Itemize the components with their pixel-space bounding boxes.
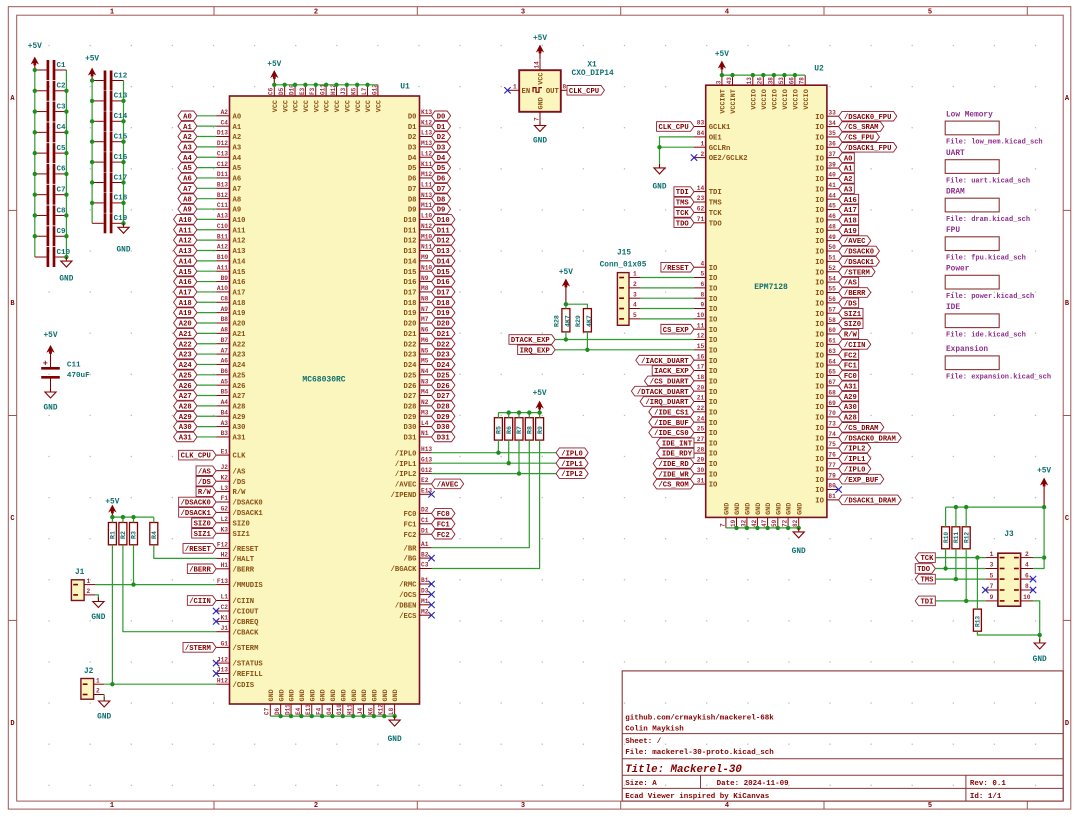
- global label TCK (J3): [915, 553, 935, 563]
- wire A2: [197, 136, 216, 138]
- svg-text:A20: A20: [233, 321, 246, 329]
- svg-text:3: 3: [633, 291, 637, 298]
- svg-text:B11: B11: [217, 233, 228, 240]
- svg-text:J15: J15: [617, 250, 631, 258]
- global label TDO (J3): [915, 564, 935, 574]
- global label A28: [174, 401, 197, 411]
- U2 pin 63 (IO): [815, 348, 838, 360]
- svg-text:GND: GND: [382, 689, 390, 701]
- global label /RESET (U2): [661, 262, 694, 272]
- svg-text:A16: A16: [233, 279, 246, 287]
- svg-text:/REFILL: /REFILL: [233, 671, 263, 679]
- svg-text:A17: A17: [179, 290, 192, 298]
- global label D25: [432, 370, 455, 380]
- U1 pin K12 (D1): [408, 119, 433, 131]
- U2 pin 43 (VCCINT): [726, 75, 738, 114]
- svg-text:K6: K6: [367, 707, 374, 715]
- svg-text:2: 2: [96, 688, 100, 695]
- title block text: file: [625, 749, 774, 757]
- svg-text:A15: A15: [233, 269, 246, 277]
- capacitor C11 470uF: [41, 356, 90, 391]
- svg-text:/DS: /DS: [844, 300, 858, 308]
- global label A20: [174, 318, 197, 328]
- svg-text:D9: D9: [437, 207, 446, 215]
- svg-text:IO: IO: [815, 352, 824, 360]
- svg-text:L7: L7: [361, 87, 368, 95]
- svg-text:C13: C13: [114, 93, 128, 101]
- svg-text:A29: A29: [844, 394, 857, 402]
- U2 pin 10 (IO): [694, 312, 718, 324]
- wire A31: [197, 436, 216, 438]
- svg-text:VCC: VCC: [324, 100, 332, 112]
- junction GND/R13: [1038, 633, 1042, 637]
- wire A27: [197, 395, 216, 397]
- svg-text:40: 40: [828, 172, 836, 179]
- svg-text:66: 66: [788, 77, 795, 85]
- svg-text:84: 84: [697, 130, 705, 137]
- svg-text:C5: C5: [57, 145, 67, 153]
- global label /CS_FPU (U2 right): [839, 132, 880, 142]
- U1 pin B13 (A7): [216, 182, 241, 194]
- global label D4: [432, 152, 451, 162]
- svg-text:N12: N12: [421, 223, 432, 230]
- svg-text:A15: A15: [179, 269, 192, 277]
- global label /CS_DRAM (U2 right): [839, 423, 884, 433]
- U2 pin 71 (TDO): [694, 216, 722, 228]
- svg-text:A14: A14: [179, 258, 193, 266]
- svg-text:File: dram.kicad_sch: File: dram.kicad_sch: [946, 216, 1030, 224]
- svg-text:M11: M11: [421, 202, 432, 209]
- svg-text:R/W: R/W: [844, 332, 858, 340]
- svg-text:L10: L10: [421, 213, 432, 220]
- svg-text:IO: IO: [815, 342, 824, 350]
- global label /EXP_BUF (U2 right): [839, 474, 884, 484]
- svg-text:M13: M13: [421, 140, 432, 147]
- U2 pin 58 (IO): [815, 317, 838, 329]
- connector J1: [71, 569, 95, 601]
- svg-text:/CS_ROM: /CS_ROM: [658, 482, 688, 490]
- svg-text:L8: L8: [388, 707, 395, 715]
- svg-text:CLK_CPU: CLK_CPU: [658, 124, 688, 132]
- U2 pin 57 (IO): [815, 306, 838, 318]
- U1 pin B6 (A25): [216, 368, 245, 380]
- ground GND (X1): [533, 122, 547, 146]
- U2 pin 72 (GND): [782, 503, 794, 528]
- svg-text:E3: E3: [299, 87, 306, 95]
- svg-text:7: 7: [990, 583, 994, 590]
- U1 pin N11 (D13): [404, 244, 433, 256]
- svg-text:C11: C11: [67, 361, 81, 369]
- U2 pin 46 (IO): [815, 213, 838, 225]
- U2 pin 69 (IO): [815, 400, 838, 412]
- U2 pin 64 (IO): [815, 358, 838, 370]
- svg-text:A28: A28: [179, 403, 192, 411]
- wire A10: [197, 218, 216, 220]
- wire A28: [197, 405, 216, 407]
- U2 value EPM7128: [754, 283, 788, 292]
- svg-text:R/W: R/W: [233, 489, 247, 497]
- svg-text:/STERM: /STERM: [185, 645, 211, 653]
- power +5V (R1-R4): [105, 499, 119, 518]
- svg-text:/EXP_BUF: /EXP_BUF: [844, 477, 879, 485]
- svg-text:K5: K5: [351, 87, 358, 95]
- U1 pin G12 (/IPL2): [395, 467, 433, 479]
- U2 pin 53 (VCCIO): [778, 75, 790, 110]
- U2 pin 77 (IO): [815, 462, 838, 474]
- svg-text:1: 1: [110, 802, 114, 810]
- U1 pin G11 (VCC): [320, 84, 332, 112]
- svg-text:/DSACK1_FPU: /DSACK1_FPU: [844, 145, 891, 153]
- svg-text:Title: Mackerel-30: Title: Mackerel-30: [625, 764, 742, 776]
- global label /IDE_WR: [653, 469, 694, 479]
- U1 pin G13 (/IPL1): [395, 456, 433, 468]
- X1 value CXO_DIP14: [572, 70, 614, 78]
- svg-text:K13: K13: [421, 109, 432, 116]
- junction R6//IPL1: [507, 461, 511, 465]
- U1 pin M6 (D22): [404, 337, 432, 349]
- global label /DSACK0_DRAM (U2 right): [839, 433, 902, 443]
- U1 pin M13 (D3): [408, 140, 433, 152]
- sheet Power: [945, 266, 1034, 301]
- U1 pin L4 (D30): [404, 420, 432, 432]
- svg-text:VCCIO: VCCIO: [793, 89, 801, 109]
- svg-text:D19: D19: [404, 310, 417, 318]
- svg-text:A30: A30: [844, 404, 857, 412]
- svg-text:A23: A23: [179, 352, 192, 360]
- U1 pin M3 (D29): [404, 409, 432, 421]
- global label /DSACK1: [179, 508, 216, 518]
- global label DTACK_EXP: [509, 335, 555, 345]
- U2 pin 54 (IO): [815, 275, 838, 287]
- svg-text:N11: N11: [421, 244, 432, 251]
- svg-text:GND: GND: [392, 689, 400, 701]
- svg-text:/RMC: /RMC: [399, 582, 417, 590]
- svg-text:IO: IO: [815, 166, 824, 174]
- svg-text:/IDE_CS1: /IDE_CS1: [654, 409, 689, 417]
- svg-text:N6: N6: [421, 327, 429, 334]
- U1 pin N12 (D11): [404, 223, 433, 235]
- svg-text:A6: A6: [183, 176, 192, 184]
- svg-text:/DS: /DS: [233, 479, 247, 487]
- svg-text:A9: A9: [183, 207, 192, 215]
- wire J3.10 to GND: [1033, 601, 1040, 641]
- power +5V (cap bank C1-C10): [28, 43, 42, 70]
- U1 pin E3 (VCC): [299, 85, 311, 112]
- svg-text:J12: J12: [217, 656, 228, 663]
- svg-text:VCC: VCC: [272, 100, 280, 112]
- wire R12 leg: [965, 549, 967, 601]
- svg-text:DRAM: DRAM: [946, 189, 965, 197]
- svg-text:A19: A19: [179, 310, 192, 318]
- U2 pin 50 (IO): [815, 244, 838, 256]
- svg-text:/IPL0: /IPL0: [395, 450, 417, 458]
- global label A18: [174, 297, 197, 307]
- U1 pin H13 (/IPL0): [395, 446, 433, 458]
- junction TDI/R12: [964, 599, 968, 603]
- U2 pin 56 (IO): [815, 296, 838, 308]
- svg-text:A4: A4: [233, 155, 242, 163]
- wire TCK: [935, 557, 985, 559]
- svg-text:N13: N13: [421, 192, 432, 199]
- no-connect /RMC: [428, 581, 434, 587]
- global label A23: [174, 349, 197, 359]
- wire /IPL1: [432, 462, 557, 464]
- svg-text:IO: IO: [815, 487, 824, 495]
- svg-text:VCC: VCC: [293, 100, 301, 112]
- wire OE1/GCLRn to GND: [660, 137, 695, 164]
- svg-text:A31: A31: [233, 435, 247, 443]
- svg-text:E2: E2: [421, 477, 429, 484]
- svg-text:/IPL2: /IPL2: [561, 471, 583, 479]
- svg-text:K3: K3: [221, 527, 229, 534]
- wire J2.1 to /CDIS: [104, 683, 216, 685]
- svg-text:Conn_01x05: Conn_01x05: [600, 262, 647, 270]
- svg-text:GND: GND: [59, 276, 73, 284]
- svg-text:A26: A26: [233, 383, 246, 391]
- svg-text:/CBACK: /CBACK: [233, 629, 260, 637]
- wire J1.2 to GND: [95, 595, 98, 599]
- svg-text:M2: M2: [421, 608, 429, 615]
- svg-text:R13: R13: [975, 616, 982, 627]
- global label /CIIN (U2 right): [839, 340, 871, 350]
- svg-text:61: 61: [828, 338, 836, 345]
- sheet FPU: [945, 227, 1026, 262]
- global label A17 (U2 right): [839, 205, 859, 215]
- global label /CS_ROM: [653, 479, 694, 489]
- svg-text:J4: J4: [357, 707, 364, 715]
- svg-text:GND: GND: [97, 714, 111, 722]
- wire VCC bus (U1): [274, 84, 378, 86]
- title block text: project url: [625, 715, 774, 723]
- global label /AVEC: [432, 479, 464, 489]
- svg-text:21: 21: [697, 395, 705, 402]
- svg-text:1: 1: [513, 83, 517, 90]
- svg-text:M4: M4: [421, 389, 429, 396]
- U2 pin 81 (IO): [815, 493, 838, 505]
- U1 pin C3 (/BGACK): [391, 562, 432, 574]
- svg-text:G2: G2: [221, 506, 229, 513]
- wire A0: [197, 115, 216, 117]
- svg-text:2: 2: [633, 281, 637, 288]
- global label A16 (U2 right): [839, 194, 859, 204]
- U1 pin A2 (A0): [216, 109, 241, 121]
- svg-text:FC1: FC1: [404, 521, 418, 529]
- svg-text:M7: M7: [421, 316, 429, 323]
- svg-text:IO: IO: [815, 373, 824, 381]
- svg-text:33: 33: [828, 109, 836, 116]
- svg-text:GND: GND: [309, 689, 317, 701]
- svg-text:K2: K2: [221, 474, 229, 481]
- svg-text:OE1: OE1: [709, 135, 723, 143]
- capacitor C3: [35, 102, 67, 122]
- svg-text:/CIOUT: /CIOUT: [233, 609, 260, 617]
- svg-text:R3: R3: [131, 531, 138, 539]
- wire A11: [197, 229, 216, 231]
- svg-text:B10: B10: [217, 254, 228, 261]
- svg-text:D1: D1: [437, 124, 446, 132]
- svg-text:GND: GND: [278, 689, 286, 701]
- svg-text:L3: L3: [221, 485, 229, 492]
- svg-text:5: 5: [928, 9, 932, 17]
- svg-text:TDI: TDI: [920, 599, 933, 607]
- wire A9: [197, 208, 216, 210]
- U1 pin A6 (A24): [216, 358, 246, 370]
- svg-text:3: 3: [521, 9, 525, 17]
- svg-text:/BG: /BG: [404, 556, 417, 564]
- svg-text:A2: A2: [221, 109, 229, 116]
- U2 pin 47 (GND): [761, 503, 773, 528]
- U2 pin 24 (IO): [694, 415, 718, 427]
- svg-text:GND: GND: [652, 184, 666, 192]
- svg-text:M10: M10: [421, 233, 432, 240]
- svg-text:Size: A: Size: A: [625, 780, 657, 788]
- U1 pin E1 (CLK): [216, 448, 246, 460]
- capacitor C4: [35, 122, 67, 142]
- svg-text:78: 78: [799, 77, 806, 85]
- wire R5 leg: [497, 440, 499, 453]
- svg-text:D: D: [10, 720, 14, 728]
- U2 pin 28 (IO): [694, 446, 718, 458]
- svg-text:MC68030RC: MC68030RC: [302, 376, 345, 385]
- svg-text:22: 22: [697, 405, 705, 412]
- svg-text:D24: D24: [404, 362, 418, 370]
- svg-text:IO: IO: [709, 327, 718, 335]
- U1 pin N13 (D8): [408, 192, 433, 204]
- svg-text:IO: IO: [815, 218, 824, 226]
- svg-text:/IPL1: /IPL1: [395, 461, 417, 469]
- svg-text:H12: H12: [217, 677, 228, 684]
- wire R13 to GND: [977, 631, 1039, 635]
- svg-text:A5: A5: [183, 165, 192, 173]
- svg-text:D5: D5: [408, 165, 417, 173]
- sheet Expansion: [945, 346, 1051, 381]
- svg-text:CLK_CPU: CLK_CPU: [569, 88, 599, 96]
- svg-text:/IDE_RD: /IDE_RD: [658, 461, 689, 469]
- svg-text:/AVEC: /AVEC: [395, 482, 417, 490]
- U2 pin 40 (IO): [815, 172, 838, 184]
- svg-text:/DSACK0: /DSACK0: [233, 500, 263, 508]
- svg-text:A29: A29: [233, 414, 246, 422]
- svg-text:81: 81: [828, 493, 836, 500]
- global label /IPL2: [556, 469, 588, 479]
- global label A3: [178, 142, 197, 152]
- U1 pin A4 (A28): [216, 399, 245, 411]
- junction R28/DTACK_EXP: [564, 337, 568, 341]
- global label FC2: [432, 529, 455, 539]
- global label /IDE_CS0: [649, 428, 694, 438]
- svg-text:6: 6: [1025, 572, 1029, 579]
- svg-text:D17: D17: [437, 290, 450, 298]
- svg-text:IO: IO: [709, 378, 718, 386]
- global label A30: [174, 422, 197, 432]
- svg-text:File: uart.kicad_sch: File: uart.kicad_sch: [946, 177, 1030, 185]
- svg-text:github.com/crmaykish/mackerel-: github.com/crmaykish/mackerel-68k: [625, 715, 774, 723]
- svg-text:A27: A27: [233, 393, 246, 401]
- svg-text:R6: R6: [506, 426, 513, 434]
- svg-text:U1: U1: [400, 83, 410, 92]
- svg-text:File: mackerel-30-proto.kicad_: File: mackerel-30-proto.kicad_sch: [625, 749, 774, 757]
- U1 pin C4 (A1): [216, 119, 242, 131]
- svg-text:J2: J2: [221, 464, 229, 471]
- svg-text:A16: A16: [844, 197, 857, 205]
- U1 pin C13 (A4): [216, 150, 242, 162]
- svg-text:34: 34: [828, 120, 836, 127]
- svg-text:FC1: FC1: [437, 521, 451, 529]
- junction R3/J1: [131, 582, 135, 586]
- svg-text:Rev: 0.1: Rev: 0.1: [970, 780, 1007, 788]
- svg-text:68: 68: [828, 389, 836, 396]
- svg-text:A11: A11: [179, 227, 193, 235]
- U2 pin 70 (IO): [815, 410, 838, 422]
- U1 pin B10 (A14): [216, 254, 246, 266]
- U1 pin C11 (A9): [216, 202, 241, 214]
- U2 pin 45 (IO): [815, 203, 838, 215]
- svg-text:J13: J13: [217, 667, 228, 674]
- svg-text:R5: R5: [496, 426, 503, 434]
- wire A17: [197, 291, 216, 293]
- svg-text:A22: A22: [233, 341, 246, 349]
- U2 pin 84 (OE1): [694, 130, 722, 142]
- U1 pin N5 (D23): [404, 347, 432, 359]
- svg-text:/CBREQ: /CBREQ: [233, 619, 260, 627]
- capacitor C6: [35, 164, 67, 184]
- U1 pin N8 (D18): [404, 295, 432, 307]
- svg-text:9: 9: [700, 302, 704, 309]
- svg-text:D10: D10: [404, 217, 417, 225]
- U2 pin 83 (GCLK1): [694, 120, 731, 132]
- U2 pin 51 (IO): [815, 255, 838, 267]
- no-connect U2 pin 80: [835, 486, 841, 492]
- svg-text:D18: D18: [404, 300, 417, 308]
- svg-text:/DBEN: /DBEN: [395, 602, 417, 610]
- U1 pin A8 (A21): [216, 327, 246, 339]
- global label D8: [432, 194, 451, 204]
- global label A10: [174, 215, 197, 225]
- svg-text:M1: M1: [421, 598, 429, 605]
- svg-text:/BGACK: /BGACK: [391, 566, 418, 574]
- svg-text:10: 10: [1023, 594, 1031, 601]
- U1 pin J4 (GND): [357, 689, 369, 716]
- svg-text:FC1: FC1: [844, 363, 858, 371]
- svg-text:D16: D16: [437, 279, 450, 287]
- svg-text:C4: C4: [57, 124, 67, 132]
- global label CLK_CPU (X1): [567, 86, 604, 96]
- U1 pin E13 (/IPEND): [391, 488, 433, 500]
- svg-text:/CIIN: /CIIN: [233, 598, 255, 606]
- wire R3 leg: [133, 545, 135, 585]
- svg-text:D21: D21: [437, 331, 451, 339]
- U2 pin 67 (IO): [815, 379, 838, 391]
- wire VCC bus (U2): [722, 74, 805, 76]
- global label FC1: [432, 519, 455, 529]
- svg-text:/IACK_DUART: /IACK_DUART: [641, 358, 689, 366]
- power +5V (U2): [715, 51, 729, 75]
- power +5V (C11): [43, 332, 57, 363]
- svg-text:GND: GND: [340, 689, 348, 701]
- global label SIZ0 (U2 right): [839, 319, 863, 329]
- wire +5V to R28/R29: [566, 304, 588, 308]
- svg-text:CS_EXP: CS_EXP: [663, 327, 690, 335]
- U1 pin B2 (/BG): [404, 551, 432, 563]
- svg-text:B12: B12: [217, 192, 228, 199]
- ground GND (U2 OE): [652, 164, 666, 192]
- svg-text:VCC: VCC: [538, 73, 546, 85]
- U1 pin B11 (A12): [216, 233, 245, 245]
- U2 pin 29 (IO): [694, 457, 718, 469]
- svg-text:A2: A2: [844, 176, 853, 184]
- wire IRQ_EXP: [555, 349, 694, 351]
- resistor R8: [525, 413, 533, 441]
